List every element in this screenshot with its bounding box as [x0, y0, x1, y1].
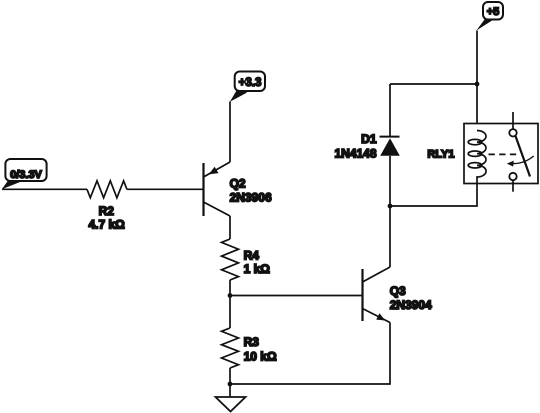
svg-text:2N3904: 2N3904: [390, 298, 432, 312]
svg-text:10 kΩ: 10 kΩ: [244, 350, 277, 364]
relay actuation arrow: [507, 156, 534, 167]
wire R2 to Q2 base: [127, 188, 204, 190]
svg-text:R3: R3: [244, 335, 260, 349]
svg-text:1N4148: 1N4148: [334, 146, 376, 160]
resistor R4: [222, 239, 271, 280]
svg-text:+5: +5: [487, 6, 500, 18]
svg-text:D1: D1: [361, 132, 377, 146]
relay coil: [468, 131, 486, 184]
relay RLY1: [427, 124, 538, 184]
wire Q2 collector to R4: [229, 216, 231, 239]
node +5 supply callout: [476, 2, 503, 31]
svg-text:2N3906: 2N3906: [230, 191, 272, 205]
relay linkage dashed line: [489, 153, 517, 155]
wire +5 down to relay coil: [476, 31, 478, 131]
node 0/3.3V input callout: [2, 159, 47, 189]
relay switch contacts: [509, 112, 516, 192]
wire Q2 emitter to +3.3: [229, 102, 231, 163]
svg-text:4.7 kΩ: 4.7 kΩ: [88, 217, 125, 231]
svg-text:RLY1: RLY1: [427, 149, 454, 161]
node +3.3 supply callout: [230, 72, 265, 102]
node B junction (D1/relay/Q3): [388, 204, 393, 209]
wire R3 to ground node: [229, 368, 231, 397]
svg-text:R4: R4: [244, 248, 260, 262]
wire input to R2: [2, 188, 87, 190]
wire node B to relay bottom: [390, 184, 477, 207]
resistor R2: [87, 181, 127, 232]
svg-text:Q3: Q3: [390, 284, 406, 298]
transistor Q2 (PNP 2N3906): [204, 162, 272, 216]
svg-text:Q2: Q2: [230, 177, 246, 191]
wire D1 top to +5 rail: [390, 83, 477, 85]
resistor R3: [222, 328, 277, 368]
ground: [216, 397, 246, 412]
relay switch blade: [516, 136, 531, 177]
wire node A to Q3 base: [230, 295, 363, 297]
node +5 rail junction: [475, 82, 480, 87]
svg-text:0/3.3V: 0/3.3V: [10, 169, 42, 181]
wire R4 to node A: [229, 280, 231, 328]
node A junction (R4/R3/Q3 base): [228, 293, 233, 298]
transistor Q3 (NPN 2N3904): [363, 267, 433, 323]
svg-text:+3.3: +3.3: [239, 77, 262, 89]
svg-text:R2: R2: [99, 204, 115, 218]
svg-text:1 kΩ: 1 kΩ: [244, 262, 271, 276]
wire Q3 emitter down and left to ground node: [230, 323, 390, 385]
diode D1 1N4148: [334, 84, 399, 206]
node ground junction (R3/Q3 emitter): [228, 382, 233, 387]
wire Q3 collector up to node B: [389, 206, 391, 267]
